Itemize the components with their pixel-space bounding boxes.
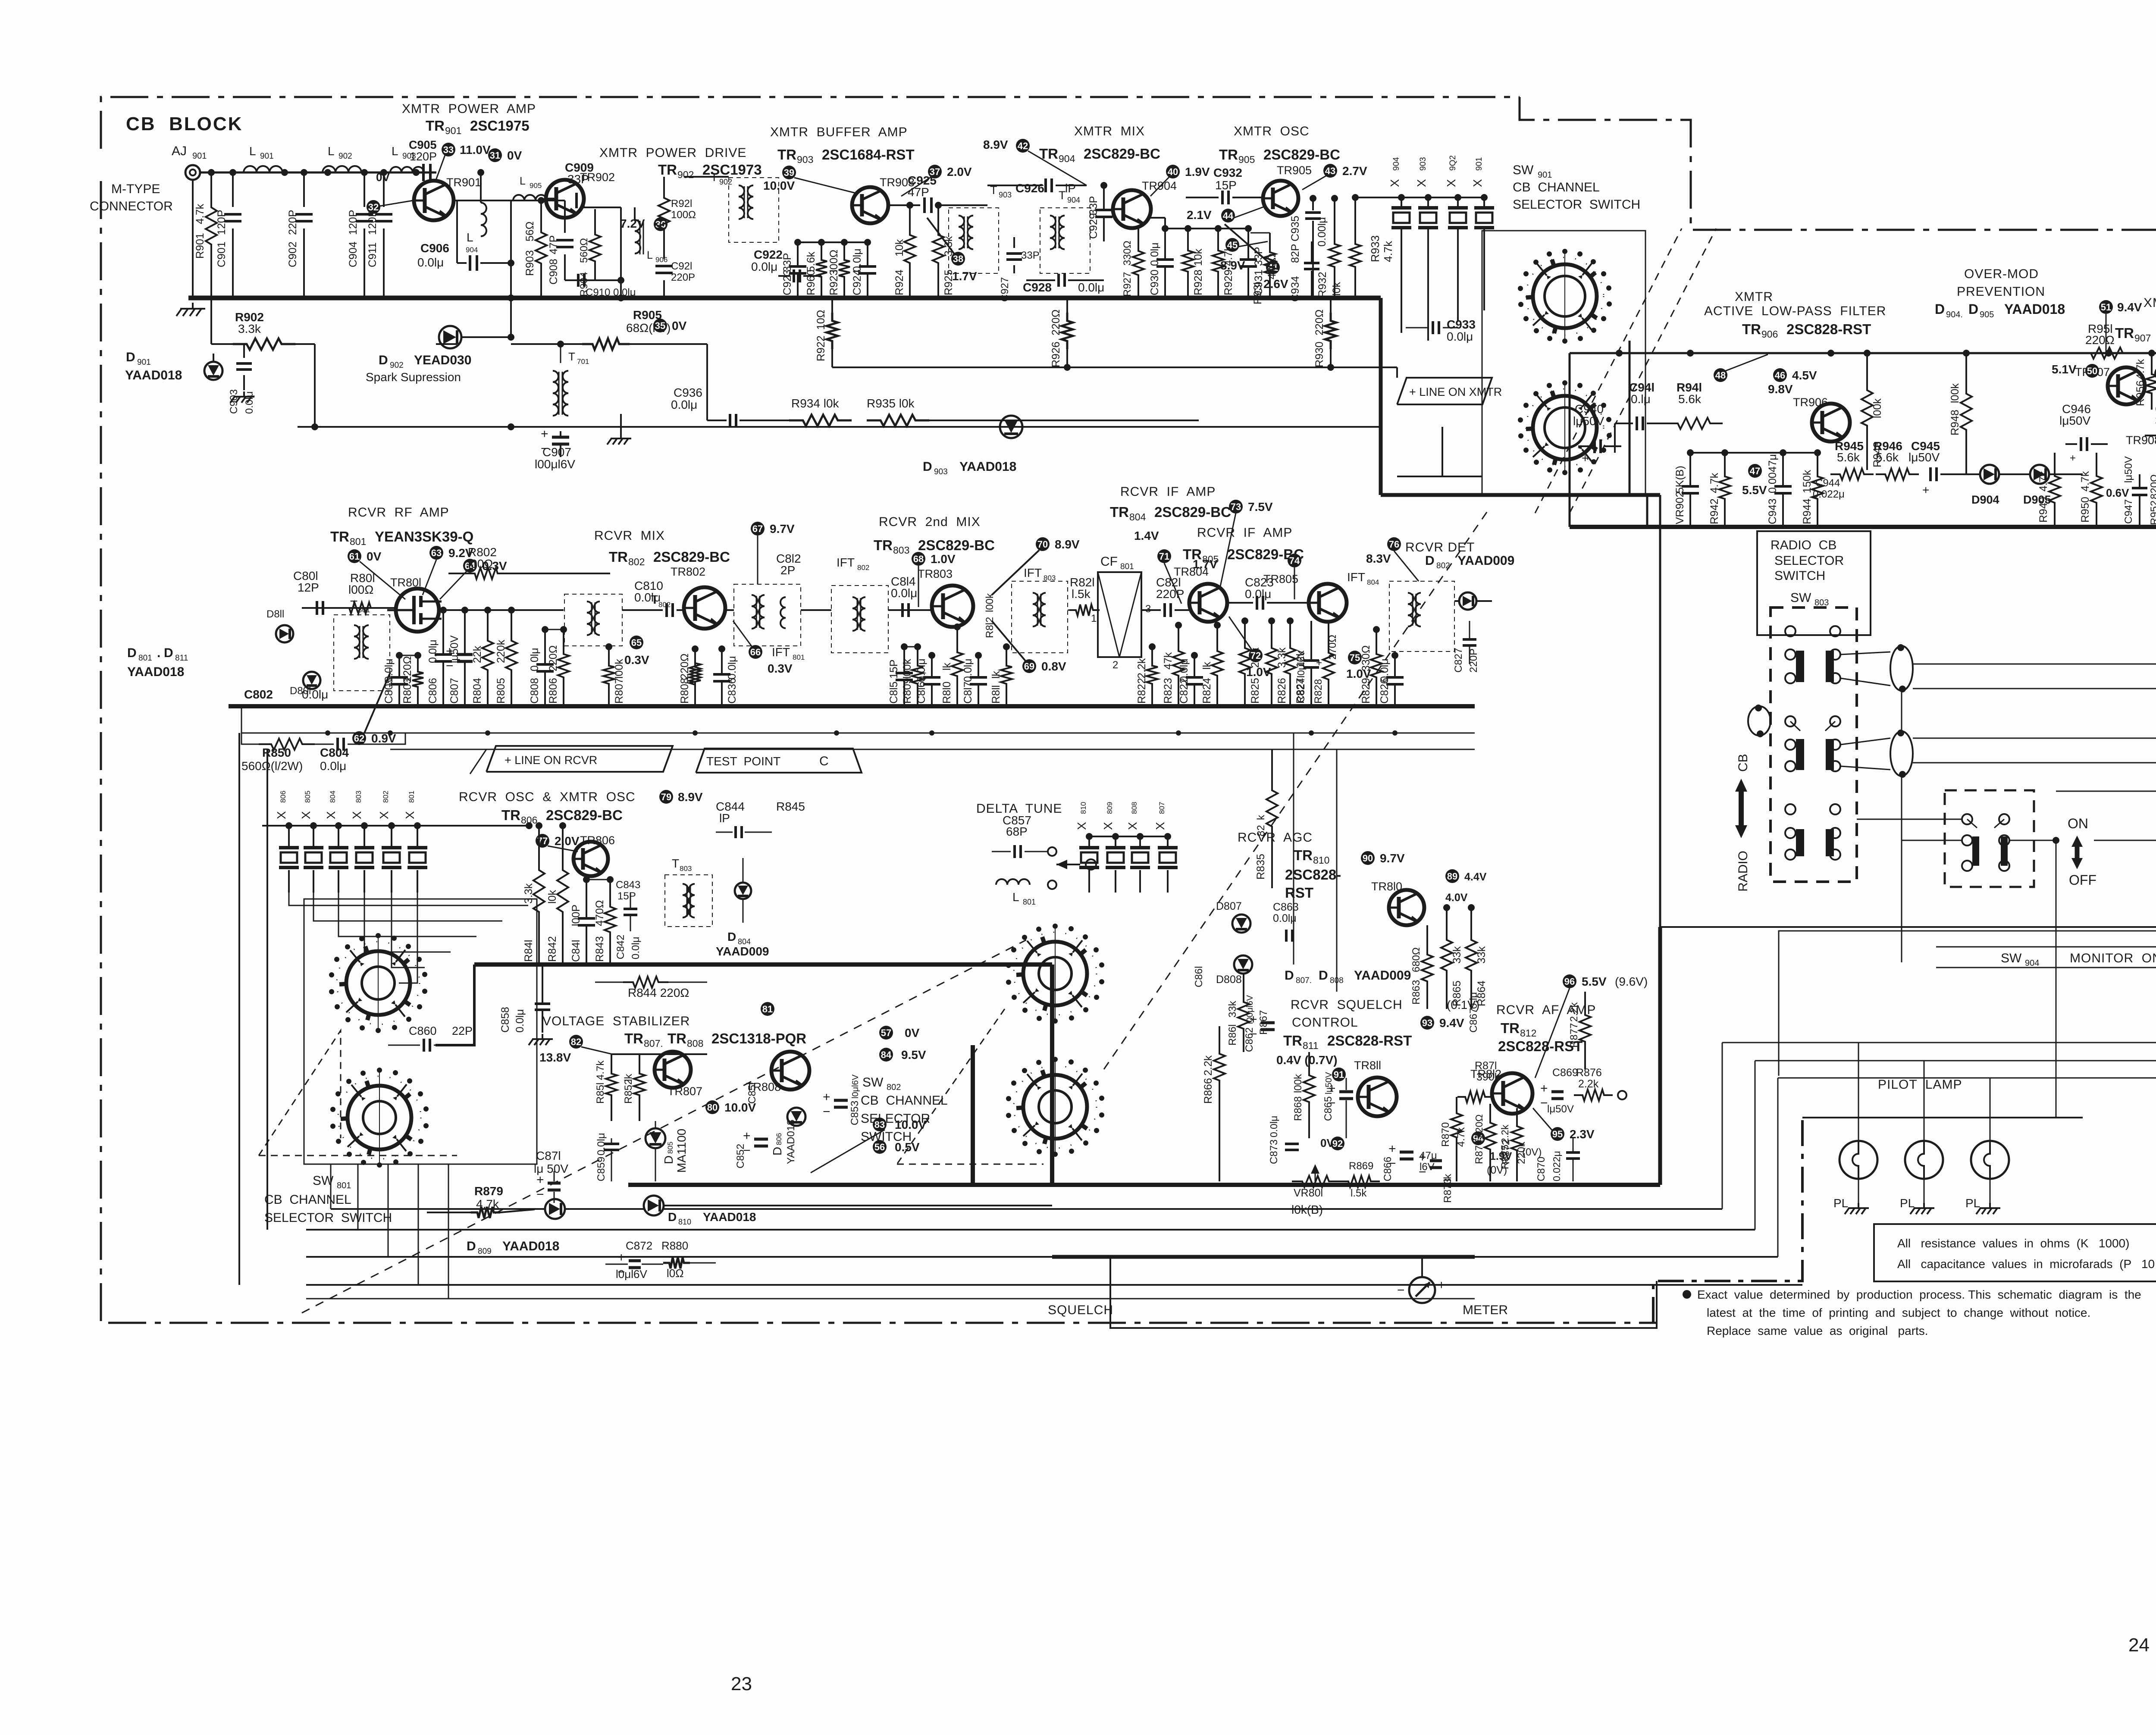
transistor TR810: [1389, 890, 1424, 925]
svg-text:C870: C870: [1536, 1157, 1547, 1181]
svg-text:L: L: [392, 144, 398, 158]
switch SW803 group1: [1785, 649, 1796, 660]
svg-text:X: X: [1153, 822, 1167, 830]
svg-text:YAAD009: YAAD009: [1354, 968, 1411, 983]
wire D903 line: [298, 426, 1381, 428]
inductor L901: [244, 166, 282, 172]
wire monitor rule top: [1936, 936, 2156, 947]
svg-text:801: 801: [407, 791, 416, 803]
svg-text:904: 904: [2025, 958, 2039, 968]
svg-text:903: 903: [797, 154, 813, 165]
svg-text:D904: D904: [1971, 493, 1999, 506]
diode D808: [1234, 955, 1252, 974]
svg-text:+: +: [1328, 1081, 1336, 1096]
wire osc bus: [474, 962, 759, 967]
wire RCVR ground bus: [229, 704, 1475, 708]
svg-text:+: +: [541, 427, 548, 441]
wire antenna top line: [200, 172, 436, 174]
svg-text:R8ll: R8ll: [990, 685, 1002, 704]
rotary switch SW801 upper dial: [337, 942, 420, 1024]
wire monitor line 2150: [1660, 926, 2156, 928]
svg-text:150k: 150k: [1801, 470, 1813, 493]
resistor R924 10k: [906, 202, 913, 209]
voltage probe 68 1.0V: [912, 552, 925, 566]
svg-text:l00k: l00k: [1292, 1074, 1304, 1093]
svg-text:38: 38: [953, 254, 963, 264]
capacitor C910 0.01u: [565, 279, 621, 281]
wire agc vertical 2: [1336, 749, 1338, 992]
svg-text:R876: R876: [1576, 1067, 1602, 1079]
capacitor C826 0.0lμ: [1391, 652, 1398, 659]
svg-text:9Q2: 9Q2: [1448, 155, 1457, 171]
svg-text:METER: METER: [1463, 1303, 1508, 1317]
svg-text:680Ω: 680Ω: [1410, 947, 1422, 972]
svg-text:R956: R956: [2134, 380, 2147, 406]
wire monitor rule bottom: [1936, 961, 2156, 968]
diode D901: [204, 362, 222, 380]
svg-text:C842: C842: [615, 935, 627, 959]
svg-text:X: X: [1075, 822, 1088, 830]
svg-text:804: 804: [1129, 511, 1146, 523]
svg-text:R950: R950: [2079, 497, 2091, 523]
svg-text:R823: R823: [1162, 678, 1174, 704]
svg-text:−: −: [823, 1105, 830, 1119]
svg-text:RCVR RF AMP: RCVR RF AMP: [348, 505, 449, 520]
svg-text:0.lμ: 0.lμ: [1631, 392, 1651, 406]
capacitor C924 0.0lμ: [864, 239, 871, 246]
transformer T801 dashed box: [334, 615, 390, 691]
transformer T802 dashed box: [564, 594, 622, 646]
svg-text:31: 31: [490, 150, 500, 161]
resistor R843 470Ω: [607, 876, 614, 883]
svg-text:904: 904: [1067, 196, 1080, 204]
ground T701: [620, 433, 622, 438]
svg-text:RADIO CB: RADIO CB: [1771, 538, 1836, 552]
label RADIO CB SELECTOR SWITCH box: [1757, 531, 1871, 635]
wire monitor bottom 2592: [1802, 1117, 2083, 1118]
svg-text:802: 802: [887, 1083, 901, 1092]
svg-text:Spark Supression: Spark Supression: [366, 370, 461, 384]
svg-text:C8l6: C8l6: [915, 682, 928, 704]
svg-text:904.: 904.: [1946, 310, 1963, 319]
rotary switch SW901 lower dial: [1526, 389, 1604, 467]
svg-text:10k: 10k: [893, 239, 906, 257]
svg-text:+: +: [2070, 452, 2076, 464]
svg-text:D: D: [379, 353, 388, 367]
svg-text:50: 50: [2087, 366, 2097, 376]
svg-text:C924: C924: [851, 269, 863, 295]
svg-text:XMTR MIX: XMTR MIX: [1074, 124, 1145, 138]
svg-text:AJ: AJ: [172, 144, 187, 158]
voltage probe 90 9.7V: [1361, 851, 1375, 865]
transistor TR906: [1812, 404, 1850, 442]
svg-text:0.3V: 0.3V: [624, 653, 649, 667]
wire harness line4: [306, 1284, 1802, 1286]
svg-text:latest at the time of pri: latest at the time of printing and subje…: [1707, 1306, 2090, 1319]
crystal X809: [1112, 833, 1119, 840]
svg-text:4.7k: 4.7k: [1708, 473, 1720, 493]
svg-text:D: D: [467, 1239, 476, 1253]
svg-text:803: 803: [680, 864, 692, 873]
svg-text:904: 904: [1059, 153, 1075, 164]
svg-text:R824: R824: [1201, 678, 1213, 704]
wire squelch bus: [1052, 1255, 1475, 1259]
svg-text:0V: 0V: [905, 1026, 920, 1040]
svg-text:D: D: [1935, 301, 1945, 317]
svg-text:0.0lμ: 0.0lμ: [1268, 1116, 1279, 1137]
svg-text:2SC829-BC: 2SC829-BC: [1084, 146, 1160, 162]
svg-text:+: +: [1419, 1150, 1426, 1165]
dashed linkage SW901: [1535, 229, 1682, 513]
svg-text:9.4V: 9.4V: [1439, 1016, 1464, 1030]
svg-text:5.6k: 5.6k: [1837, 451, 1860, 464]
svg-text:33P: 33P: [781, 253, 793, 272]
svg-text:lP: lP: [719, 811, 730, 825]
resistor R803 220Ω: [414, 652, 421, 659]
capacitor C905 120P: [422, 164, 425, 181]
svg-text:R903: R903: [524, 250, 536, 276]
svg-text:806: 806: [775, 1133, 783, 1145]
svg-text:903: 903: [1419, 157, 1428, 171]
capacitor C923 33P: [794, 239, 801, 246]
capacitor C930 0.0lμ: [1162, 225, 1169, 232]
svg-text:4.7k: 4.7k: [194, 204, 206, 224]
svg-text:32: 32: [368, 202, 379, 213]
svg-text:lk: lk: [990, 670, 1002, 679]
dashed gang linkage SW802-SW901: [1104, 511, 1488, 1069]
diode D905: [2030, 465, 2049, 484]
svg-text:C827: C827: [1453, 648, 1464, 673]
svg-text:10k: 10k: [1192, 248, 1204, 266]
svg-text:811: 811: [175, 654, 188, 663]
svg-text:C843: C843: [616, 879, 640, 891]
svg-text:+: +: [1582, 451, 1589, 465]
svg-text:R880: R880: [661, 1239, 688, 1252]
svg-text:C863: C863: [1273, 901, 1299, 913]
dashed linkage SW802: [897, 1009, 1005, 1164]
svg-text:0.0lμ: 0.0lμ: [595, 1133, 607, 1156]
svg-text:33k: 33k: [1451, 946, 1463, 964]
resistor R842 l0k: [559, 822, 566, 829]
svg-text:k: k: [1255, 814, 1267, 820]
svg-text:3.3k: 3.3k: [1276, 647, 1288, 668]
diode D902 spark suppression: [436, 343, 457, 345]
svg-text:C906: C906: [420, 241, 449, 255]
wire thick to selector: [1381, 493, 1660, 497]
svg-text:R867: R867: [1258, 1010, 1269, 1035]
voltage probe 77 2.0V: [536, 834, 549, 848]
svg-text:220Ω: 220Ω: [1473, 1114, 1485, 1138]
svg-text:0V: 0V: [367, 550, 382, 563]
wire harness drops left: [330, 1164, 332, 1209]
svg-text:R952: R952: [2149, 501, 2156, 525]
svg-text:TR: TR: [874, 537, 893, 553]
svg-text:R844 220Ω: R844 220Ω: [628, 986, 689, 999]
svg-text:89: 89: [1447, 871, 1457, 882]
svg-text:100Ω: 100Ω: [671, 209, 696, 221]
svg-text:X: X: [377, 811, 391, 819]
voltage probe 45 8.9V: [1225, 238, 1239, 252]
voltage probe 37 2.0V: [928, 165, 942, 179]
svg-text:57: 57: [881, 1027, 891, 1038]
svg-text:TR: TR: [667, 1030, 686, 1046]
voltage probe 67 9.7V: [751, 522, 765, 536]
svg-text:68: 68: [913, 554, 924, 564]
svg-text:2.2k: 2.2k: [1202, 1055, 1214, 1076]
svg-text:lμ50V: lμ50V: [1547, 1103, 1574, 1115]
transformer IFT803 dashed box: [1012, 581, 1068, 653]
svg-text:R842: R842: [546, 936, 558, 962]
svg-text:XMTR BUFFER AMP: XMTR BUFFER AMP: [770, 125, 908, 139]
capacitor C8l5 15P: [901, 643, 908, 650]
transistor TR805: [1309, 584, 1347, 622]
wire lhs vertical A: [238, 733, 240, 1285]
resistor R923 l00Ω: [841, 239, 848, 246]
svg-text:CONTROL: CONTROL: [1292, 1015, 1358, 1030]
svg-text:TR: TR: [426, 118, 445, 134]
crystal X801: [414, 822, 421, 829]
svg-text:XMTR: XMTR: [1735, 290, 1773, 304]
delta tune selector small circles: [1086, 859, 1096, 870]
svg-text:0.0lμ: 0.0lμ: [751, 260, 777, 273]
resistor R805 220k: [508, 607, 515, 614]
resistor R863 680ohm: [1422, 944, 1433, 992]
svg-text:560Ω: 560Ω: [578, 238, 590, 263]
svg-text:l00P: l00P: [570, 905, 582, 926]
svg-text:33P: 33P: [1087, 196, 1100, 215]
svg-text:C934: C934: [1289, 276, 1301, 302]
svg-text:470Ω: 470Ω: [594, 900, 606, 926]
svg-text:C852: C852: [735, 1144, 746, 1168]
svg-text:C872: C872: [626, 1239, 652, 1252]
svg-text:C908: C908: [548, 259, 560, 285]
svg-text:810: 810: [1079, 802, 1087, 814]
svg-text:0.4V (0.7V): 0.4V (0.7V): [1276, 1053, 1338, 1067]
svg-text:lk: lk: [941, 662, 953, 670]
svg-text:79: 79: [661, 792, 671, 802]
svg-text:68P: 68P: [1006, 825, 1028, 838]
svg-text:l0μl6V: l0μl6V: [1295, 650, 1307, 678]
svg-text:904: 904: [466, 246, 478, 254]
svg-text:YAAD018: YAAD018: [2004, 301, 2065, 317]
resistor R809 l00k: [914, 643, 921, 650]
svg-text:XMTR OSC: XMTR OSC: [1234, 124, 1310, 138]
svg-text:R875: R875: [1499, 1145, 1511, 1169]
svg-text:0.0lμ: 0.0lμ: [1273, 912, 1297, 924]
svg-text:220P: 220P: [287, 210, 299, 235]
label XMTR AF AMP: [2099, 300, 2113, 314]
svg-text:TR902: TR902: [580, 171, 615, 184]
svg-text:35: 35: [655, 320, 665, 331]
svg-text:2.1V: 2.1V: [1187, 208, 1212, 222]
svg-text:801: 801: [358, 606, 370, 614]
capacitor C84l l00P: [583, 876, 590, 883]
svg-text:4.7k: 4.7k: [2079, 471, 2091, 492]
svg-text:l00k: l00k: [1949, 383, 1961, 403]
wire harness line1 riser: [1722, 1043, 1723, 1209]
svg-text:C936: C936: [674, 386, 702, 399]
svg-text:TR803: TR803: [918, 567, 953, 580]
svg-text:All capacitance values in: All capacitance values in microfarads (P…: [1897, 1257, 2155, 1271]
svg-text:2.0V: 2.0V: [947, 165, 972, 179]
lamp PL3: [1971, 1141, 2009, 1179]
svg-text:76: 76: [1389, 539, 1399, 550]
svg-text:0.0lμ: 0.0lμ: [1149, 242, 1161, 266]
svg-text:5.5V: 5.5V: [1582, 975, 1607, 988]
transistor TR808: [771, 1052, 809, 1090]
svg-text:T: T: [350, 598, 357, 611]
svg-text:TR: TR: [330, 529, 349, 545]
svg-text:D: D: [164, 646, 173, 660]
svg-text:2.7V: 2.7V: [1342, 164, 1367, 178]
capacitor C862 100u16V: [1261, 1021, 1275, 1024]
crystal X806: [285, 822, 292, 829]
svg-text:RCVR IF AMP: RCVR IF AMP: [1120, 485, 1216, 499]
svg-text:C926: C926: [1015, 182, 1044, 195]
resistor R865 33k: [1443, 904, 1450, 911]
svg-text:0.0lμ: 0.0lμ: [417, 256, 444, 269]
svg-text:7.5V: 7.5V: [1248, 500, 1273, 514]
svg-text:904: 904: [1392, 157, 1401, 171]
svg-text:D: D: [1968, 301, 1978, 317]
voltage probe 63 9.2V: [429, 546, 443, 560]
svg-text:C911: C911: [367, 242, 379, 267]
svg-text:807.: 807.: [644, 1038, 663, 1049]
resistor R928 10k: [1185, 225, 1191, 232]
svg-text:47k: 47k: [1162, 652, 1174, 670]
svg-text:C84l: C84l: [570, 940, 582, 962]
capacitor C911 120P: [383, 172, 385, 207]
svg-text:l0μl6V: l0μl6V: [851, 1074, 860, 1099]
svg-text:906: 906: [655, 256, 667, 264]
svg-text:D: D: [923, 460, 932, 474]
svg-text:0.lμ: 0.lμ: [1468, 992, 1479, 1009]
capacitor C902 220P: [303, 172, 305, 207]
svg-text:33k: 33k: [1476, 946, 1488, 964]
svg-text:0.0lμ: 0.0lμ: [514, 1009, 526, 1033]
svg-text:47: 47: [1750, 466, 1760, 476]
svg-text:220Ω: 220Ω: [401, 656, 414, 682]
svg-text:TR: TR: [624, 1030, 643, 1046]
svg-text:9.8V: 9.8V: [1768, 382, 1793, 396]
capacitor C929 33P: [1100, 182, 1107, 189]
svg-text:0.8V: 0.8V: [1041, 660, 1066, 673]
svg-text:TR: TR: [501, 807, 520, 823]
svg-text:75: 75: [1350, 652, 1360, 663]
svg-text:RCVR IF AMP: RCVR IF AMP: [1197, 526, 1292, 540]
svg-text:VOLTAGE STABILIZER: VOLTAGE STABILIZER: [542, 1014, 690, 1028]
svg-text:220Ω: 220Ω: [1050, 310, 1062, 335]
svg-text:lP: lP: [1065, 182, 1076, 195]
svg-text:+: +: [1540, 1081, 1548, 1096]
svg-text:220Ω: 220Ω: [679, 654, 691, 680]
voltage labels agc: [1445, 869, 1459, 883]
svg-text:R84l: R84l: [523, 940, 535, 962]
svg-text:1.7V: 1.7V: [1193, 557, 1218, 571]
svg-text:CB CHANNEL: CB CHANNEL: [861, 1093, 948, 1108]
diode D811: [276, 625, 293, 642]
svg-text:SELECTOR SWITCH: SELECTOR SWITCH: [264, 1211, 392, 1225]
svg-text:470Ω: 470Ω: [1266, 254, 1278, 279]
switch SW803 top pins: [1785, 626, 1796, 636]
switch SW901 wire box: [1482, 231, 1645, 495]
svg-text:R807: R807: [613, 678, 625, 704]
svg-text:R822: R822: [1136, 678, 1148, 704]
svg-text:SW: SW: [1513, 163, 1534, 177]
svg-text:R869: R869: [1349, 1160, 1373, 1172]
svg-text:805: 805: [666, 1142, 674, 1154]
svg-text:X: X: [403, 811, 417, 819]
resistor R826 3.3k: [1268, 617, 1275, 624]
dashed linkage SW801: [259, 1030, 341, 1156]
svg-text:10Ω: 10Ω: [815, 310, 827, 330]
svg-text:YAAD018: YAAD018: [703, 1210, 756, 1224]
svg-text:OVER-MOD: OVER-MOD: [1964, 267, 2039, 281]
capacitor C805 0.0lμ: [396, 652, 403, 659]
svg-text:SW: SW: [1790, 591, 1811, 605]
crystal X803: [361, 822, 368, 829]
svg-text:10.0V: 10.0V: [763, 179, 795, 192]
svg-text:13.8V: 13.8V: [539, 1051, 571, 1064]
resistor R925 3.3k: [935, 202, 942, 209]
svg-text:TR: TR: [609, 549, 628, 565]
svg-text:0.0lμ: 0.0lμ: [1447, 330, 1473, 343]
wire thick drop from af bus: [1658, 927, 1662, 1185]
svg-text:TR: TR: [1283, 1033, 1302, 1049]
svg-text:TR805: TR805: [1263, 573, 1298, 586]
svg-text:l00k: l00k: [613, 659, 625, 679]
svg-text:.: .: [157, 646, 160, 660]
svg-text:l0Ω: l0Ω: [667, 1267, 684, 1280]
svg-text:D: D: [127, 646, 137, 660]
svg-text:4.0V: 4.0V: [1445, 892, 1468, 904]
svg-text:808: 808: [1330, 976, 1344, 985]
svg-text:IFT: IFT: [837, 556, 855, 569]
svg-text:C905: C905: [409, 138, 437, 151]
wire TR902 collector: [584, 207, 621, 208]
capacitor C801 12P: [316, 601, 318, 615]
wire twistA-twistB link: [1901, 691, 1902, 731]
transistor TR806: [573, 842, 608, 876]
voltage probe 31 0V: [488, 148, 502, 162]
svg-text:R85l: R85l: [595, 1083, 606, 1104]
voltage probe 41 2.6V: [1266, 260, 1280, 274]
svg-text:TR905: TR905: [1277, 164, 1312, 177]
voltage probe 71 1.4V: [1157, 549, 1171, 563]
svg-text:2SC829-BC: 2SC829-BC: [918, 537, 995, 553]
svg-text:0.0lμ: 0.0lμ: [1078, 281, 1104, 294]
capacitor C925 47P: [923, 197, 926, 213]
svg-text:44: 44: [1223, 210, 1234, 221]
svg-text:RCVR SQUELCH: RCVR SQUELCH: [1291, 998, 1403, 1012]
svg-text:X: X: [1471, 179, 1484, 187]
svg-text:R809: R809: [901, 678, 913, 704]
svg-text:C92l: C92l: [671, 260, 692, 272]
wire spark row: [461, 336, 511, 338]
resistor R804 22k: [484, 607, 491, 614]
svg-text:lμ50V: lμ50V: [2123, 456, 2134, 483]
inductor L801: [996, 879, 1030, 885]
svg-text:R845: R845: [776, 800, 805, 813]
crystal X802: [388, 822, 395, 829]
wire filter top rail: [1570, 352, 2156, 354]
svg-text:All resistance values in: All resistance values in ohms (K 1000): [1897, 1237, 2129, 1250]
svg-text:CONNECTOR: CONNECTOR: [90, 199, 173, 213]
svg-text:MA1100: MA1100: [675, 1129, 688, 1173]
svg-text:CB CHANNEL: CB CHANNEL: [1513, 180, 1600, 194]
wire meter drop: [1421, 1257, 1423, 1276]
svg-text:TR: TR: [1110, 504, 1129, 520]
